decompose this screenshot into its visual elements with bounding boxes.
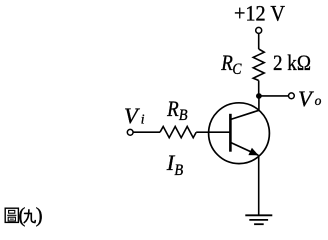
- terminal Vi: [127, 129, 133, 135]
- wire RB to base: [196, 131, 208, 133]
- wire collector node to Vo terminal: [259, 95, 289, 97]
- svg-text:B: B: [174, 162, 183, 179]
- svg-text:o: o: [315, 93, 322, 108]
- svg-text:C: C: [232, 61, 241, 78]
- svg-text:R: R: [220, 50, 233, 75]
- ground: [245, 215, 272, 224]
- svg-text:V: V: [124, 103, 140, 128]
- terminal Vo: [289, 93, 295, 99]
- svg-text:2 kΩ: 2 kΩ: [273, 50, 311, 75]
- terminal +12V: [256, 27, 262, 33]
- node collector junction: [256, 93, 262, 99]
- wire Vi to RB: [133, 131, 160, 133]
- resistor RB: [160, 127, 196, 138]
- svg-text:B: B: [179, 107, 188, 124]
- wire collector node down to transistor: [258, 96, 260, 110]
- svg-text:V: V: [298, 86, 314, 111]
- figure caption 圖(九): [5, 203, 42, 227]
- svg-text:R: R: [166, 96, 179, 121]
- resistor RC: [253, 49, 264, 81]
- wire emitter to ground: [258, 155, 260, 215]
- transistor Q1: [209, 103, 270, 164]
- wire supply to RC: [258, 34, 260, 49]
- wire RC to collector node: [258, 81, 260, 97]
- svg-text:): ): [36, 203, 43, 227]
- svg-text:i: i: [141, 111, 145, 126]
- svg-text:+12 V: +12 V: [234, 1, 285, 26]
